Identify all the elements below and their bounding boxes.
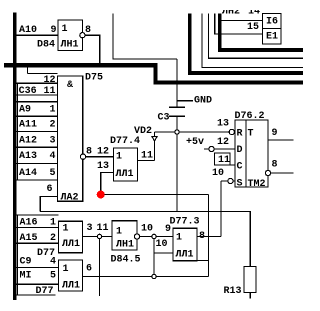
svg-text:A12: A12	[19, 135, 37, 146]
svg-text:1: 1	[50, 105, 56, 116]
wire A9 pin1	[17, 115, 58, 117]
svg-text:A16: A16	[20, 217, 38, 228]
svg-text:S: S	[237, 179, 243, 190]
box I6/E1	[263, 14, 282, 45]
wire pin12 D75	[17, 82, 58, 84]
bus left vertical	[13, 13, 17, 301]
gate D84.5 LN1 box	[112, 221, 137, 250]
gate D77 LL1 box 2	[59, 260, 83, 291]
wire A10 to D84 input	[17, 34, 58, 36]
svg-text:1: 1	[62, 24, 68, 35]
svg-text:ЛЛ1: ЛЛ1	[62, 239, 80, 250]
svg-text:8: 8	[272, 160, 278, 171]
svg-text:8: 8	[85, 25, 91, 36]
svg-text:2: 2	[50, 233, 56, 244]
gate D77.3 LL1 box	[173, 228, 197, 261]
svg-text:C36: C36	[19, 86, 37, 97]
svg-text:ЛА2: ЛА2	[61, 193, 79, 204]
wire C9 pin4	[17, 267, 59, 269]
wire R net horizontal	[155, 131, 230, 133]
ladder2 top line	[17, 214, 59, 216]
ladder2 left edge	[17, 215, 19, 295]
wire gate outputs y276.5	[83, 276, 209, 278]
svg-text:1: 1	[63, 224, 69, 235]
svg-text:12: 12	[217, 137, 229, 148]
svg-text:6: 6	[86, 264, 92, 275]
svg-text:ЛН1: ЛН1	[116, 240, 134, 251]
wire S input	[221, 180, 235, 182]
junction J3	[97, 234, 101, 238]
wire A16 pin1	[17, 226, 59, 228]
svg-text:D77: D77	[36, 286, 54, 297]
svg-text:13: 13	[217, 119, 229, 130]
svg-text:D75: D75	[85, 73, 103, 84]
svg-text:1: 1	[50, 217, 56, 228]
ladder1 divider	[17, 101, 58, 103]
trigger pin column separator	[245, 120, 247, 187]
bubble D84.5 output	[134, 234, 139, 239]
bubble TM2 R input	[229, 129, 234, 134]
wire R13 bottom lead	[249, 293, 251, 299]
svg-text:A10: A10	[19, 25, 37, 36]
svg-text:10: 10	[212, 168, 224, 179]
svg-text:11: 11	[141, 151, 153, 162]
bus top horizontal segment 1	[4, 63, 158, 67]
wire D75 output to D77.4 pin12	[86, 156, 114, 158]
svg-text:12: 12	[97, 147, 109, 158]
wire long rail y213 to R13	[40, 212, 250, 267]
wire vertical x177 GND/C3 net upper	[176, 59, 178, 107]
gate D84 LN1 box	[58, 20, 83, 51]
wire A12 pin3	[17, 146, 58, 148]
capacitor C3 plates	[169, 106, 185, 108]
bus rail B	[154, 80, 304, 84]
bubble TM2 S input	[228, 178, 233, 183]
svg-text:ЛЛ1: ЛЛ1	[176, 250, 194, 261]
wire VD2 anode-cathode vertical	[154, 132, 156, 161]
svg-text:1: 1	[116, 152, 122, 163]
resistor R13 body	[244, 267, 256, 293]
bus rail C	[218, 48, 303, 52]
svg-text:VD2: VD2	[134, 126, 152, 137]
gate D77.4 LL1 box	[114, 148, 138, 181]
wire junction J3 down	[99, 237, 101, 297]
svg-text:10: 10	[156, 239, 168, 250]
svg-text:A14: A14	[19, 168, 37, 179]
svg-text:8: 8	[199, 231, 205, 242]
wire A14 pin5	[17, 179, 58, 181]
wire top vertical x214.8 to E1	[215, 14, 263, 35]
svg-text:12: 12	[44, 75, 56, 86]
bubble TM2 Q-bar output	[265, 170, 270, 175]
wire A13 pin4	[17, 163, 58, 165]
svg-text:ЛЛ1: ЛЛ1	[62, 281, 80, 292]
junction J1	[175, 130, 179, 134]
pin 11 label box	[215, 153, 231, 165]
svg-text:+5v: +5v	[186, 137, 204, 148]
bus rail A	[188, 71, 303, 75]
svg-text:11: 11	[44, 86, 56, 97]
wire red node to x208.5	[105, 194, 209, 196]
svg-text:&: &	[67, 80, 73, 91]
svg-text:R: R	[237, 129, 243, 140]
svg-text:D: D	[237, 145, 243, 156]
svg-text:1: 1	[176, 233, 182, 244]
wire D84 output to bus	[85, 35, 99, 63]
wire to I6	[222, 20, 263, 22]
wire D77.4 output pin11	[138, 160, 155, 162]
svg-text:ЛЛ1: ЛЛ1	[116, 169, 134, 180]
diode VD2	[152, 136, 157, 141]
junction J4	[152, 274, 156, 278]
white clip over top text	[221, 0, 281, 10]
svg-text:5: 5	[50, 271, 56, 282]
svg-text:I6: I6	[266, 17, 278, 28]
gate D77 LL1 box 1	[59, 221, 83, 252]
wire MI pin5	[17, 283, 59, 285]
red junction node	[97, 191, 105, 199]
svg-text:GND: GND	[194, 96, 212, 107]
wire C input	[215, 164, 236, 166]
wire gate1 out pin3 to LN1 pin11	[83, 236, 113, 238]
svg-text:A15: A15	[20, 233, 38, 244]
svg-text:11: 11	[97, 223, 109, 234]
svg-text:D84.5: D84.5	[111, 255, 141, 266]
svg-text:C3: C3	[158, 113, 170, 124]
wire LN1 out pin10 to D77.3 pin9	[140, 236, 173, 238]
svg-text:11: 11	[218, 155, 230, 166]
svg-text:3: 3	[87, 223, 93, 234]
svg-text:5: 5	[50, 168, 56, 179]
wire top vertical x113 to C3 net	[113, 14, 177, 60]
svg-text:ЛН1: ЛН1	[61, 39, 79, 50]
wire Qbar pin8	[271, 172, 294, 174]
svg-text:ТМ2: ТМ2	[248, 179, 266, 190]
wire D77.4 pin13 to red node	[101, 172, 114, 190]
svg-text:A11: A11	[19, 120, 37, 131]
svg-text:D76.2: D76.2	[235, 111, 265, 122]
svg-text:1: 1	[116, 227, 122, 238]
ladder1 top row line	[28, 67, 58, 74]
svg-text:A13: A13	[19, 151, 37, 162]
svg-text:T: T	[248, 129, 254, 140]
wire D77.3 output pin8	[197, 236, 221, 238]
svg-text:6: 6	[47, 184, 53, 195]
svg-text:D84: D84	[37, 39, 55, 50]
svg-text:10: 10	[141, 224, 153, 235]
svg-text:4: 4	[50, 151, 56, 162]
svg-text:D77.4: D77.4	[110, 136, 140, 147]
wire GND stub	[177, 100, 193, 102]
wire pin6 D75 to rail	[40, 197, 57, 212]
svg-text:MI: MI	[20, 271, 32, 282]
bubble TM2 D input	[209, 146, 214, 151]
svg-text:9: 9	[272, 128, 278, 139]
svg-text:C: C	[237, 162, 243, 173]
wire D input stub	[204, 148, 235, 150]
wire vertical x154	[153, 237, 155, 277]
gate D75 LA2 box	[58, 76, 83, 201]
wire top vertical x208.5	[209, 14, 304, 59]
bus step vertical	[154, 63, 158, 85]
svg-text:4: 4	[50, 257, 56, 268]
wire C36 pin11	[17, 94, 58, 96]
wire vertical x177 below C3 to rail	[176, 116, 178, 211]
bubble D84 output	[80, 33, 85, 38]
ladder1 left edge	[17, 83, 19, 180]
wire stub y260.4	[197, 259, 209, 261]
svg-text:9: 9	[51, 25, 57, 36]
svg-text:8: 8	[86, 147, 92, 158]
svg-text:D77.3: D77.3	[170, 217, 200, 228]
wire A15 pin2	[17, 242, 59, 244]
svg-text:15: 15	[247, 22, 259, 33]
wire Q pin9	[268, 139, 294, 141]
svg-text:A9: A9	[19, 105, 31, 116]
junction J2	[152, 234, 156, 238]
svg-text:E1: E1	[266, 32, 278, 43]
wire A11 pin2	[17, 130, 58, 132]
svg-text:13: 13	[97, 161, 109, 172]
svg-text:3: 3	[50, 135, 56, 146]
svg-text:2: 2	[50, 120, 56, 131]
bubble D75 output	[80, 154, 85, 159]
bus vertical V2	[218, 14, 222, 53]
wire top vertical x202	[202, 14, 303, 68]
ladder2 bottom line	[17, 294, 56, 296]
svg-text:R13: R13	[224, 286, 242, 297]
bus vertical V1	[188, 14, 192, 76]
wire S vertical x221	[220, 181, 222, 237]
svg-text:C9: C9	[20, 257, 32, 268]
wire D77.3 pin10	[154, 252, 173, 254]
wire x208.5 down to y276.5	[208, 195, 210, 277]
trigger D76.2 TM2 box	[235, 120, 268, 187]
svg-text:1: 1	[63, 264, 69, 275]
